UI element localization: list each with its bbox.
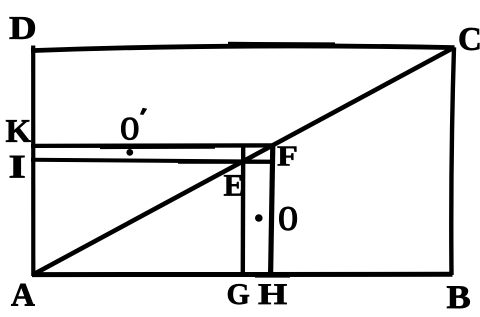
side AB (bottom edge of rectangle) <box>32 272 453 277</box>
line HF (right side of vertical rectangle) <box>271 144 273 274</box>
vertex label D <box>10 17 35 39</box>
point label K <box>6 120 31 142</box>
line IE (lower side of horizontal rectangle) <box>31 160 273 162</box>
line GE (left side of vertical rectangle) <box>241 144 246 274</box>
point label F <box>278 147 297 166</box>
point label I <box>10 156 24 178</box>
vertex label A <box>11 284 34 306</box>
vertex label B <box>447 286 470 308</box>
vertex label C <box>460 28 480 50</box>
point label E <box>224 175 243 195</box>
dot marking centre O of vertical rectangle <box>255 214 263 222</box>
diagonal AC <box>35 48 454 274</box>
point label O prime (letter O) <box>121 118 138 140</box>
thick patch on line KF (scan artifact) <box>100 146 215 150</box>
point label O (centre of vertical rectangle) <box>279 207 297 231</box>
thick patch on side DC (scan artifact) <box>228 42 335 48</box>
side DC (top edge of rectangle) <box>31 46 455 51</box>
thick patch on side AB (scan artifact) <box>255 272 290 278</box>
line KF (upper side of horizontal rectangle) <box>31 143 274 148</box>
point label G <box>228 284 249 304</box>
thick patch on line IE (scan artifact) <box>178 161 270 164</box>
dot marking centre O prime of horizontal rectangle <box>126 149 133 156</box>
prime mark of O prime <box>140 108 147 115</box>
side CB (right edge of rectangle) <box>451 47 454 275</box>
point label H <box>259 284 287 304</box>
side AD (left edge of rectangle) <box>31 46 35 277</box>
